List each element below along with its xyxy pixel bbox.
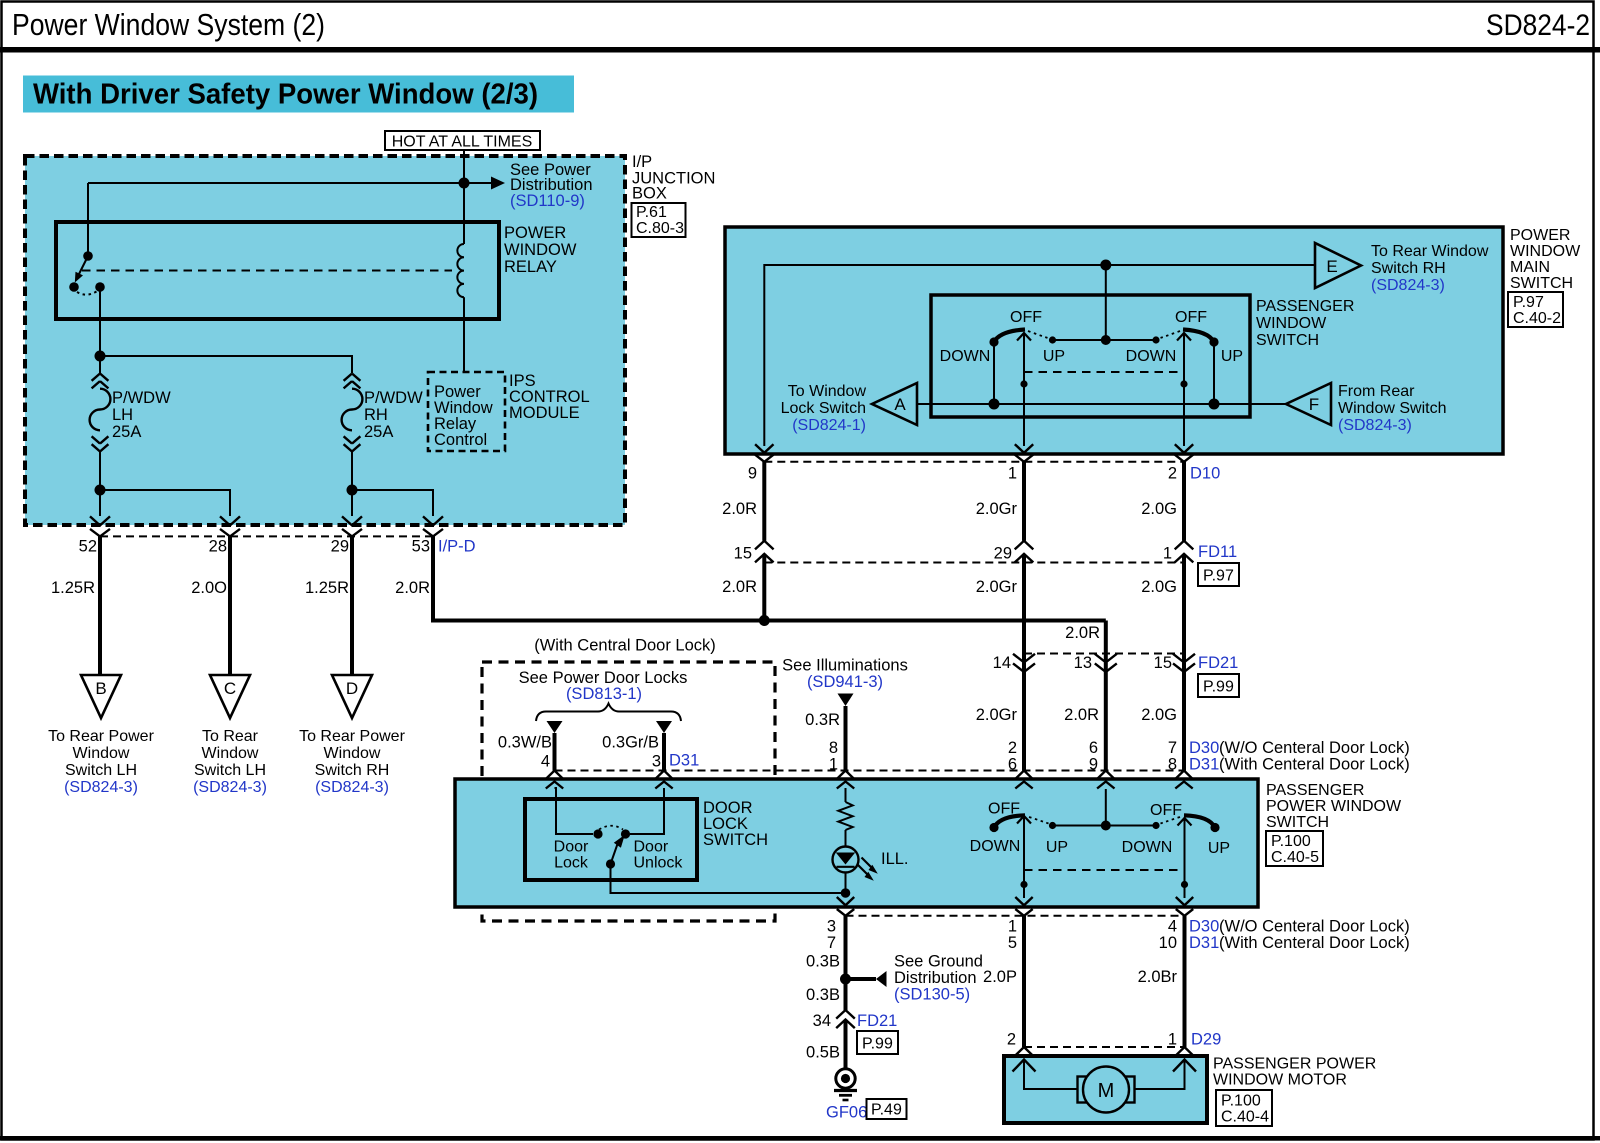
svg-text:FD11: FD11 [1198, 543, 1237, 561]
wire: battery feed vertical (HOT) [463, 150, 465, 244]
svg-text:2.0Gr: 2.0Gr [976, 578, 1018, 596]
svg-text:D31: D31 [1189, 934, 1219, 952]
svg-text:7: 7 [827, 934, 836, 952]
IPS CONTROL MODULE box (dashed) [428, 372, 505, 451]
svg-text:DOWN: DOWN [1122, 839, 1173, 856]
wire 2.0R from pin 53 [395, 536, 1106, 620]
svg-text:See Ground: See Ground [894, 953, 983, 971]
See Power Door Locks label [519, 669, 688, 703]
svg-text:25A: 25A [112, 423, 141, 441]
svg-text:9: 9 [748, 465, 757, 483]
svg-text:1.25R: 1.25R [305, 579, 349, 597]
svg-text:0.5B: 0.5B [806, 1044, 840, 1062]
svg-text:2.0R: 2.0R [1064, 706, 1099, 724]
connector triangle A [781, 383, 917, 434]
svg-text:15: 15 [1154, 654, 1172, 672]
svg-text:0.3Gr/B: 0.3Gr/B [602, 734, 659, 752]
relay label [504, 224, 577, 276]
passenger window switch left rocker (DOWN/OFF/UP) [940, 309, 1065, 404]
svg-text:4: 4 [1168, 918, 1177, 936]
svg-text:2: 2 [1007, 1031, 1016, 1049]
main switch page ref P.97 C.40-2 [1508, 292, 1563, 327]
svg-text:To Rear: To Rear [202, 728, 259, 745]
svg-text:C.40-2: C.40-2 [1513, 310, 1561, 327]
svg-text:0.3B: 0.3B [806, 953, 840, 971]
svg-text:1: 1 [1008, 465, 1017, 483]
svg-text:FD21: FD21 [857, 1012, 897, 1030]
svg-text:(With Centeral Door Lock): (With Centeral Door Lock) [1219, 934, 1410, 952]
door lock contact [593, 829, 602, 838]
node: ground distribution junction [840, 974, 851, 985]
svg-text:Switch LH: Switch LH [65, 762, 137, 779]
svg-text:6: 6 [1089, 739, 1098, 757]
fuse P/WDW LH 25A [90, 374, 171, 452]
svg-text:I/P-D: I/P-D [438, 538, 476, 556]
svg-text:(With Centeral Door Lock): (With Centeral Door Lock) [1219, 756, 1410, 774]
svg-text:D29: D29 [1191, 1031, 1221, 1049]
svg-text:2.0R: 2.0R [722, 500, 757, 518]
wire: left UP output to pin 1 [1020, 333, 1027, 446]
node: left rocker to A-F bus [989, 399, 1000, 410]
I/P JUNCTION BOX label [632, 153, 715, 203]
svg-text:4: 4 [541, 753, 550, 771]
svg-text:C: C [224, 679, 236, 698]
svg-text:2: 2 [1008, 739, 1017, 757]
svg-text:15: 15 [734, 545, 752, 563]
svg-text:P.97: P.97 [1513, 294, 1544, 311]
svg-text:29: 29 [331, 538, 349, 556]
wire 0.5B to ground [806, 1029, 845, 1069]
box entries (chevrons) [546, 771, 1193, 789]
wire 2.0Gr FD21-14 to pin 2/6 [976, 672, 1024, 771]
With Central Door Lock box (dashed) [482, 662, 775, 921]
svg-text:C.80-3: C.80-3 [636, 220, 684, 237]
motor M [1078, 1067, 1135, 1113]
D30/D31 upper labels [1189, 739, 1410, 774]
svg-text:P/WDW: P/WDW [112, 389, 171, 407]
svg-text:25A: 25A [364, 423, 393, 441]
motor page ref P.100 C.40-4 [1216, 1090, 1272, 1126]
lower rocker mechanical link (dashed) [1024, 869, 1185, 871]
relay switch: wire from feed to pivot [87, 183, 89, 256]
wire: pivot to illumination return [611, 864, 846, 893]
wire: pin 3 to unlock contact [630, 788, 664, 834]
svg-text:8: 8 [829, 739, 838, 757]
connector triangle F [1286, 383, 1446, 434]
FD21 page ref P.99 [1198, 674, 1239, 697]
wire 2.0Gr pin1 to FD11-29 [976, 462, 1024, 541]
svg-text:D30: D30 [1189, 739, 1219, 757]
connector triangle E [1315, 243, 1489, 294]
wire 2.0Gr FD11-29 to FD21-14 [976, 563, 1024, 663]
svg-text:OFF: OFF [1175, 309, 1207, 326]
svg-text:LH: LH [112, 406, 133, 424]
arrow: See Power Distribution [464, 161, 593, 210]
wire: left UP line down to exit 1/5 [1020, 816, 1027, 898]
svg-text:FD21: FD21 [1198, 654, 1238, 672]
arrow feed door lock (0.3W/B) [498, 721, 563, 771]
wire: horizontal feed to relay [88, 182, 464, 184]
wire 1.25R to triangle B [51, 536, 100, 675]
wire: relay coil to IPS module [463, 297, 465, 372]
wire: A-F bus [917, 403, 1286, 405]
svg-text:BOX: BOX [632, 185, 667, 203]
svg-text:Unlock: Unlock [634, 855, 684, 872]
power window rocker left (DOWN/OFF/UP) [970, 801, 1068, 857]
node: RH split [347, 485, 358, 496]
wire: right UP output to pin 2 [1180, 333, 1187, 446]
svg-text:M: M [1098, 1080, 1115, 1102]
svg-text:DOWN: DOWN [1126, 348, 1177, 365]
svg-text:(SD824-3): (SD824-3) [1338, 417, 1412, 434]
door lock switch arm [611, 835, 625, 864]
relay NO contact [95, 282, 105, 292]
FD21 ground page ref P.99 [857, 1031, 898, 1054]
svg-text:53: 53 [412, 538, 430, 556]
See Illuminations label [782, 657, 908, 692]
pins 8/1 (illumination) [829, 739, 838, 774]
header rule [0, 47, 1600, 53]
svg-text:UP: UP [1046, 839, 1068, 856]
passenger window switch label [1256, 298, 1354, 349]
svg-text:(SD110-9): (SD110-9) [510, 192, 585, 210]
box exits 3/7 1/5 4/10 [837, 897, 1193, 916]
svg-text:Door: Door [554, 839, 589, 856]
svg-text:OFF: OFF [1010, 309, 1042, 326]
passenger window switch right rocker (DOWN/OFF/UP) [1126, 309, 1243, 404]
svg-text:52: 52 [79, 538, 97, 556]
wire 2.0G pin2 to FD11-1 [1141, 462, 1184, 541]
rocker mechanical link (dashed) [1024, 371, 1184, 373]
svg-text:P.99: P.99 [1203, 679, 1234, 696]
connector D10 pins 9 1 2 [748, 444, 1220, 482]
PASSENGER POWER WINDOW SWITCH box [455, 779, 1258, 907]
svg-text:34: 34 [813, 1012, 831, 1030]
FD11 page ref P.97 [1198, 563, 1239, 586]
svg-text:I/P: I/P [632, 153, 652, 171]
svg-text:Distribution: Distribution [894, 969, 977, 987]
svg-text:SWITCH: SWITCH [1256, 332, 1319, 349]
node: 2.0R junction [759, 615, 770, 626]
main switch label [1510, 227, 1581, 292]
svg-text:C.40-5: C.40-5 [1271, 849, 1319, 866]
pins 3/7 [827, 918, 836, 953]
svg-text:1: 1 [1163, 545, 1172, 563]
svg-text:(SD824-3): (SD824-3) [64, 779, 138, 796]
wire 2.0R FD21-13 to pin 6/9 [1064, 672, 1106, 771]
svg-text:Power Window System (2): Power Window System (2) [12, 7, 325, 42]
svg-text:Lock Switch: Lock Switch [781, 400, 866, 417]
relay switch pivot [83, 251, 93, 261]
(With Central Door Lock) label [534, 637, 716, 655]
svg-text:P.49: P.49 [871, 1102, 902, 1119]
wire 2.0P to motor pin 2 [983, 916, 1024, 1047]
Door Lock / Door Unlock labels [554, 839, 684, 872]
svg-text:POWER: POWER [504, 224, 566, 242]
wire: feed to RH fuse [100, 356, 352, 373]
switch common bar [1049, 265, 1160, 345]
wire 2.0G FD21-15 to pin 7/8 [1141, 672, 1184, 771]
svg-text:2.0Gr: 2.0Gr [976, 500, 1018, 518]
wires to motor terminals [1024, 1060, 1185, 1090]
wire: bus to triangle E [764, 265, 1315, 446]
connector D29 pins 2 1 [1007, 1031, 1221, 1049]
svg-text:2.0G: 2.0G [1141, 706, 1177, 724]
arrow feed illumination (0.3R) [805, 694, 853, 771]
svg-text:1: 1 [1008, 918, 1017, 936]
node: LH split [95, 485, 106, 496]
svg-text:Door: Door [634, 839, 669, 856]
relay mechanical link (dashed) [82, 270, 452, 272]
svg-text:9: 9 [1089, 756, 1098, 774]
svg-text:B: B [95, 679, 106, 698]
DOOR LOCK SWITCH box [525, 799, 697, 880]
connector triangle C [193, 675, 267, 796]
svg-text:PASSENGER POWER: PASSENGER POWER [1213, 1056, 1376, 1073]
svg-text:13: 13 [1074, 654, 1092, 672]
svg-text:2: 2 [1168, 465, 1177, 483]
power window rocker right (DOWN/OFF/UP) [1122, 802, 1230, 857]
node: fuse feed split [95, 351, 106, 362]
svg-text:(SD824-3): (SD824-3) [315, 779, 389, 796]
svg-text:HOT AT ALL TIMES: HOT AT ALL TIMES [392, 134, 533, 151]
POWER WINDOW MAIN SWITCH box [725, 227, 1503, 454]
svg-text:5: 5 [1008, 934, 1017, 952]
svg-text:2.0Gr: 2.0Gr [976, 706, 1018, 724]
wire 0.3B to ground junction [806, 916, 845, 1010]
svg-text:SD824-2: SD824-2 [1486, 9, 1590, 42]
svg-text:P.99: P.99 [862, 1036, 893, 1053]
ground page ref P.49 [867, 1099, 907, 1119]
node: right rocker to A-F bus [1209, 399, 1220, 410]
svg-text:WINDOW: WINDOW [1510, 243, 1581, 260]
PASSENGER POWER WINDOW MOTOR box [1004, 1056, 1207, 1123]
svg-text:MODULE: MODULE [509, 404, 580, 422]
svg-text:RH: RH [364, 406, 388, 424]
svg-text:F: F [1309, 395, 1319, 414]
resistor (illumination) [838, 802, 852, 830]
svg-text:7: 7 [1168, 739, 1177, 757]
svg-text:P.61: P.61 [636, 204, 667, 221]
connector FD11 pins 15 29 1 [734, 541, 1237, 563]
wire 2.0R junction down to FD21-13 [1065, 621, 1106, 663]
node on E bus [1100, 260, 1111, 271]
LED lamp ILL. [833, 847, 909, 881]
svg-text:RELAY: RELAY [504, 258, 557, 276]
svg-text:See Illuminations: See Illuminations [782, 657, 908, 675]
svg-text:WINDOW: WINDOW [1256, 315, 1327, 332]
svg-text:SWITCH: SWITCH [1510, 275, 1573, 292]
ground GF06 [826, 1069, 867, 1122]
node: feed junction [459, 178, 470, 189]
svg-text:2.0G: 2.0G [1141, 500, 1177, 518]
svg-text:Switch RH: Switch RH [315, 762, 390, 779]
fuse P/WDW RH 25A [342, 374, 423, 452]
wire 2.0G FD11-1 to FD21-15 [1141, 563, 1184, 663]
svg-text:WINDOW MOTOR: WINDOW MOTOR [1213, 1072, 1347, 1089]
wire: branch to pin 53 [352, 490, 433, 516]
svg-text:0.3R: 0.3R [805, 711, 840, 729]
relay switch arm with arrowhead [75, 256, 88, 283]
svg-text:PASSENGER: PASSENGER [1266, 782, 1364, 799]
svg-text:1: 1 [1168, 1031, 1177, 1049]
svg-text:D31: D31 [669, 752, 699, 770]
svg-text:From Rear: From Rear [1338, 383, 1415, 400]
pins 1/5 [1008, 918, 1017, 953]
svg-text:PASSENGER: PASSENGER [1256, 298, 1354, 315]
svg-text:To Rear Window: To Rear Window [1371, 243, 1489, 260]
wire: LH fuse down [99, 451, 101, 516]
pins 4/10 [1159, 918, 1177, 953]
svg-text:Lock: Lock [554, 855, 589, 872]
svg-text:P.100: P.100 [1221, 1093, 1261, 1110]
svg-text:2.0R: 2.0R [1065, 624, 1100, 642]
door lock switch label [703, 799, 768, 849]
section title bar: With Driver Safety Power Window (2/3) [23, 76, 574, 113]
svg-text:P.100: P.100 [1271, 833, 1311, 850]
svg-text:Control: Control [434, 431, 487, 449]
svg-text:OFF: OFF [988, 801, 1020, 818]
svg-text:Switch RH: Switch RH [1371, 260, 1446, 277]
wire: right UP line down to exit 4/10 [1181, 818, 1188, 898]
wire: branch to pin 28 [100, 490, 230, 516]
svg-text:(SD813-1): (SD813-1) [566, 685, 642, 703]
wire 1.25R to triangle D [305, 536, 352, 675]
svg-text:To Rear Power: To Rear Power [299, 728, 405, 745]
wire: pin 8/1 into box [845, 788, 847, 802]
wire 2.0O to triangle C [191, 536, 230, 675]
svg-text:3: 3 [652, 753, 661, 771]
svg-text:D: D [346, 679, 358, 698]
svg-text:C.40-4: C.40-4 [1221, 1109, 1269, 1126]
svg-text:POWER: POWER [1510, 227, 1570, 244]
svg-text:To Rear Power: To Rear Power [48, 728, 154, 745]
pins 2/6 [1008, 739, 1017, 774]
svg-text:P/WDW: P/WDW [364, 389, 423, 407]
svg-text:OFF: OFF [1150, 802, 1182, 819]
motor box entries [1013, 1047, 1197, 1072]
relay contact travel (dotted) [77, 292, 97, 295]
header sheet code SD824-2 [1486, 9, 1590, 42]
svg-text:POWER WINDOW: POWER WINDOW [1266, 798, 1402, 815]
svg-text:1: 1 [829, 756, 838, 774]
svg-text:MAIN: MAIN [1510, 259, 1550, 276]
wire: LED to exit 3/7 [845, 873, 847, 898]
svg-text:ILL.: ILL. [881, 850, 909, 868]
svg-text:To Window: To Window [788, 383, 867, 400]
svg-text:With Driver Safety Power Windo: With Driver Safety Power Window (2/3) [33, 79, 538, 111]
svg-text:(W/O Centeral Door Lock): (W/O Centeral Door Lock) [1219, 739, 1410, 757]
svg-text:P.97: P.97 [1203, 568, 1234, 585]
wire 2.0Br to motor pin 1 [1138, 916, 1185, 1047]
connector FD21 pins 14 13 15 [993, 654, 1239, 673]
svg-text:0.3W/B: 0.3W/B [498, 734, 552, 752]
svg-text:Switch LH: Switch LH [194, 762, 266, 779]
svg-text:2.0O: 2.0O [191, 579, 227, 597]
connector triangle B [48, 675, 154, 796]
svg-text:D30: D30 [1189, 918, 1219, 936]
svg-text:6: 6 [1008, 756, 1017, 774]
svg-text:UP: UP [1221, 348, 1243, 365]
svg-text:DOWN: DOWN [940, 348, 991, 365]
pins 7/8 [1168, 739, 1177, 774]
svg-text:0.3B: 0.3B [806, 986, 840, 1004]
svg-text:Window Switch: Window Switch [1338, 400, 1446, 417]
svg-text:28: 28 [209, 538, 227, 556]
svg-text:29: 29 [994, 545, 1012, 563]
node: illumination return join [841, 888, 851, 898]
D30/D31 lower labels [1189, 918, 1410, 953]
svg-text:UP: UP [1043, 348, 1065, 365]
connector triangle D [299, 675, 405, 796]
svg-text:GF06: GF06 [826, 1104, 867, 1122]
I/P JUNCTION BOX (dashed) [25, 156, 625, 525]
svg-text:(SD824-1): (SD824-1) [792, 417, 866, 434]
arrow feed door unlock (0.3Gr/B) [602, 721, 672, 771]
relay NC contact [69, 282, 79, 292]
arrow: See Ground Distribution [846, 953, 983, 1004]
door unlock contact [621, 829, 630, 838]
svg-text:(With Central Door Lock): (With Central Door Lock) [534, 637, 716, 655]
I/P junction box page ref P.61 C.80-3 [632, 203, 686, 237]
svg-text:2.0R: 2.0R [722, 578, 757, 596]
door lock switch travel (dotted) [599, 826, 623, 830]
header title: Power Window System (2) [12, 7, 325, 42]
connector I/P-D exits 52 28 29 53 [79, 516, 476, 555]
rocker common bar (lower) [1049, 789, 1160, 831]
svg-text:D10: D10 [1190, 465, 1220, 483]
wire: relay output down [99, 287, 101, 356]
passenger power window switch label [1266, 782, 1402, 831]
svg-text:(SD824-3): (SD824-3) [193, 779, 267, 796]
svg-text:Window: Window [324, 745, 381, 762]
svg-text:(W/O Centeral Door Lock): (W/O Centeral Door Lock) [1219, 918, 1410, 936]
wire: pin 4 to lock contact [555, 788, 594, 834]
pins 4 3 D31 row [541, 752, 1185, 771]
brace over door lock feeds [536, 704, 681, 722]
svg-text:D31: D31 [1189, 756, 1219, 774]
svg-text:WINDOW: WINDOW [504, 241, 577, 259]
svg-text:(SD941-3): (SD941-3) [807, 673, 883, 691]
svg-text:A: A [894, 395, 906, 414]
wire: feed to LH fuse [99, 356, 101, 374]
svg-text:SWITCH: SWITCH [703, 831, 768, 849]
relay box POWER WINDOW RELAY [56, 222, 499, 319]
motor label [1213, 1056, 1376, 1089]
svg-text:2.0R: 2.0R [395, 579, 430, 597]
svg-text:DOWN: DOWN [970, 838, 1021, 855]
IPS CONTROL MODULE label [509, 372, 590, 422]
svg-text:UP: UP [1208, 840, 1230, 857]
svg-text:(SD130-5): (SD130-5) [894, 986, 970, 1004]
relay coil [457, 244, 464, 297]
svg-text:10: 10 [1159, 934, 1177, 952]
svg-text:Window: Window [73, 745, 130, 762]
door lock switch pivot [606, 859, 615, 868]
pins 6/9 [1089, 739, 1098, 774]
svg-text:2.0P: 2.0P [983, 968, 1017, 986]
connector FD21 pin 34 [813, 1010, 898, 1030]
svg-text:(SD824-3): (SD824-3) [1371, 277, 1445, 294]
svg-text:3: 3 [827, 918, 836, 936]
wire: RH fuse down [351, 451, 353, 516]
svg-text:SWITCH: SWITCH [1266, 814, 1329, 831]
svg-text:2.0Br: 2.0Br [1138, 968, 1178, 986]
wire 2.0R FD11-15 down to junction [722, 563, 764, 621]
svg-text:1.25R: 1.25R [51, 579, 95, 597]
passenger power window switch page ref P.100 C.40-5 [1266, 831, 1323, 866]
svg-text:8: 8 [1168, 756, 1177, 774]
